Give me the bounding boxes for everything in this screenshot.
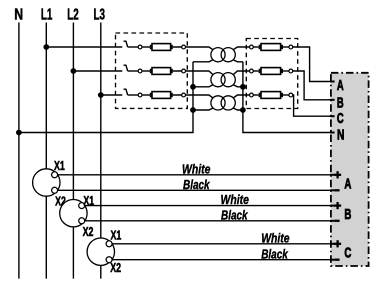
terminal SW1-F1 xyxy=(138,45,142,49)
wire to fuse F4 xyxy=(253,46,258,48)
svg-text:Black: Black xyxy=(183,177,210,192)
CT2 terminal X2 xyxy=(79,218,85,224)
svg-text:Black: Black xyxy=(261,246,288,261)
CT3 terminal X1 xyxy=(106,241,112,247)
wire N vertical xyxy=(18,23,20,279)
junction L3 xyxy=(98,92,104,98)
wire CT2 X2 to meter -IB xyxy=(85,220,330,222)
wire L3 vertical xyxy=(100,23,102,279)
transformer PT3 primary xyxy=(211,96,225,110)
enclosure fused-disconnect box xyxy=(116,33,188,108)
terminal F1 out xyxy=(182,45,186,49)
fuse F5 xyxy=(259,68,283,75)
svg-text:A: A xyxy=(337,77,344,94)
wire F6 to meter C xyxy=(293,95,331,116)
terminal F4 in xyxy=(250,45,254,49)
wire F5 to meter B xyxy=(293,71,331,100)
svg-text:X1: X1 xyxy=(111,228,122,242)
transformer PT2 secondary xyxy=(221,73,235,87)
pin B tick xyxy=(330,99,335,101)
wire to fuse F5 xyxy=(253,70,258,72)
terminal F2 out xyxy=(182,69,186,73)
svg-text:L1: L1 xyxy=(41,7,53,24)
wire L2 vertical xyxy=(72,23,74,279)
wire SW2 to F2 xyxy=(128,70,139,72)
wire L1 feeder to fuse-switch xyxy=(46,46,122,48)
wire SW1 to F1 xyxy=(128,46,139,48)
switch SW1 xyxy=(124,41,128,47)
wire L3 feeder to fuse-switch xyxy=(101,94,123,96)
junction bus PT2 primary xyxy=(190,84,196,90)
switch SW2 xyxy=(124,65,128,71)
wire to fuse F2 xyxy=(142,70,151,72)
transformer PT1 primary xyxy=(211,48,225,62)
terminal SW2-F2 xyxy=(138,69,142,73)
junction bus PT3 primary xyxy=(190,107,196,113)
wire CT2 X1 to meter +IB xyxy=(85,205,330,207)
wire PT1 secondary return xyxy=(233,60,243,62)
pin +IC tick xyxy=(330,243,335,245)
svg-text:White: White xyxy=(221,192,249,207)
wire PT2 secondary return xyxy=(233,85,243,87)
wire primary common bus to N xyxy=(19,62,193,133)
terminal SW3-F3 xyxy=(138,93,142,97)
fuse F2 xyxy=(150,68,173,75)
wire F5 out xyxy=(283,70,289,72)
CT3 terminal X2 xyxy=(106,257,112,263)
svg-text:White: White xyxy=(182,161,210,176)
wire PT3 primary return xyxy=(193,108,213,110)
fuse F3 xyxy=(150,92,173,99)
wire F6 out xyxy=(283,94,289,96)
wire PT1 primary return xyxy=(193,60,213,62)
svg-text:White: White xyxy=(261,230,289,245)
svg-text:N: N xyxy=(337,126,344,143)
junction bus PT3 secondary xyxy=(240,107,246,113)
wire PT1 secondary out xyxy=(233,47,251,50)
pin -IC minus xyxy=(335,259,340,261)
pin -IB tick xyxy=(330,220,335,222)
pin +IA tick xyxy=(330,174,335,176)
junction L2 xyxy=(71,68,77,74)
wire PT2 primary return xyxy=(193,85,213,87)
transformer PT3 secondary xyxy=(221,96,235,110)
terminal F4 out xyxy=(289,45,293,49)
svg-text:Black: Black xyxy=(221,207,248,222)
pin N tick xyxy=(330,132,335,134)
wire CT1 X2 to meter -IA xyxy=(58,189,330,191)
wire PT2 secondary out xyxy=(233,71,251,75)
pin A tick xyxy=(330,81,335,83)
wire secondary common bus to meter N xyxy=(243,62,331,133)
svg-text:L3: L3 xyxy=(93,7,105,24)
svg-text:B: B xyxy=(344,206,351,223)
svg-text:B: B xyxy=(337,94,344,111)
svg-text:A: A xyxy=(344,175,351,192)
svg-text:X2: X2 xyxy=(110,261,121,275)
wire F3 output xyxy=(173,95,213,98)
transformer PT1 secondary xyxy=(221,48,235,62)
pin -IB minus xyxy=(335,220,340,222)
pin -IC tick xyxy=(330,259,335,261)
pin +IB plus xyxy=(334,202,341,209)
terminal F6 out xyxy=(289,93,293,97)
transformer PT2 primary xyxy=(211,73,225,87)
terminal F5 out xyxy=(289,69,293,73)
switch SW3 xyxy=(124,89,128,95)
svg-text:L2: L2 xyxy=(67,7,79,24)
wire L2 feeder to fuse-switch xyxy=(73,70,122,72)
pin C tick xyxy=(330,115,335,117)
terminal F6 in xyxy=(250,93,254,97)
fuse F4 xyxy=(259,44,283,51)
pin +IA plus xyxy=(334,171,341,178)
wire F4 out xyxy=(283,46,289,48)
CT1 body xyxy=(33,169,60,196)
svg-text:X1: X1 xyxy=(54,159,65,173)
junction L1 xyxy=(43,44,49,50)
pin +IB tick xyxy=(330,205,335,207)
wire to fuse F3 xyxy=(142,94,151,96)
pin +IC plus xyxy=(334,240,341,247)
terminal F3 out xyxy=(182,93,186,97)
wire PT3 secondary return xyxy=(233,108,243,110)
junction bus PT2 secondary xyxy=(240,84,246,90)
CT1 terminal X2 xyxy=(52,187,58,193)
meter M1 enclosure xyxy=(331,73,369,266)
svg-text:N: N xyxy=(14,7,23,24)
junction N tap xyxy=(16,130,22,136)
enclosure secondary fuse box xyxy=(246,39,297,109)
wire to fuse F1 xyxy=(142,46,151,48)
CT3 body xyxy=(87,238,114,265)
svg-text:C: C xyxy=(337,110,344,127)
svg-text:C: C xyxy=(344,245,351,262)
pin -IA tick xyxy=(330,189,335,191)
fuse F6 xyxy=(259,92,283,99)
svg-text:X2: X2 xyxy=(83,225,94,239)
CT2 body xyxy=(60,200,87,227)
CT2 terminal X1 xyxy=(79,203,85,209)
wire SW3 to F3 xyxy=(128,94,139,96)
pin -IA minus xyxy=(335,189,340,191)
wire to fuse F6 xyxy=(253,94,258,96)
wire PT3 secondary out xyxy=(233,95,251,98)
terminal F5 in xyxy=(250,69,254,73)
wire CT3 X2 to meter -IC xyxy=(112,259,330,261)
svg-text:X1: X1 xyxy=(83,194,94,208)
CT1 terminal X1 xyxy=(52,172,58,178)
wire CT1 X1 to meter +IA xyxy=(58,174,330,176)
fuse F1 xyxy=(150,44,173,51)
wire F2 output xyxy=(173,71,213,75)
wire L1 vertical xyxy=(45,23,47,279)
wire F4 to meter A xyxy=(293,47,331,82)
wire CT3 X1 to meter +IC xyxy=(112,243,330,245)
wire F1 output xyxy=(173,47,213,50)
